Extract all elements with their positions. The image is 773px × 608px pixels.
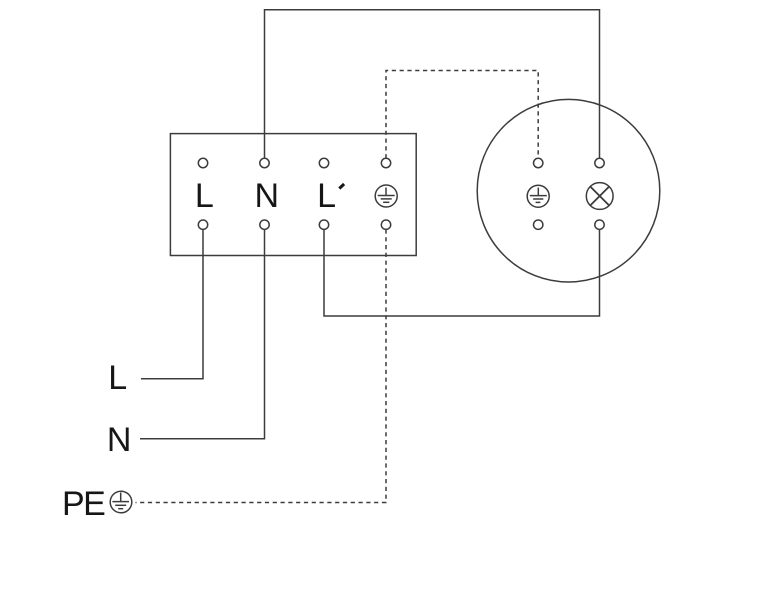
- svg-text:L: L: [195, 177, 214, 215]
- svg-text:N: N: [255, 177, 280, 215]
- svg-text:L: L: [108, 359, 127, 397]
- svg-text:PE: PE: [62, 485, 105, 523]
- svg-text:N: N: [107, 421, 132, 459]
- svg-text:L: L: [317, 177, 336, 215]
